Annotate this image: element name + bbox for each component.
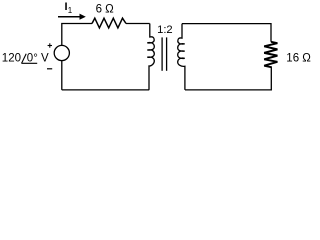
wire top-left: source to resistor: [62, 24, 92, 46]
resistor R2 16Ω zigzag: [264, 42, 277, 68]
voltage source V1 circle: [54, 45, 69, 60]
svg-text:16 Ω: 16 Ω: [286, 53, 311, 65]
inductor secondary winding L2: [178, 24, 185, 90]
svg-text:V: V: [41, 53, 49, 65]
wire bottom rail left loop: [62, 89, 149, 91]
wire secondary top to load: [182, 24, 271, 42]
plus sign: [48, 45, 52, 47]
svg-text:120: 120: [2, 53, 21, 65]
svg-text:1: 1: [68, 6, 73, 15]
svg-text:0°: 0°: [27, 53, 38, 65]
wire resistor to transformer primary: [126, 23, 150, 25]
minus sign: [47, 68, 52, 70]
wire load bottom to secondary: [185, 67, 271, 90]
svg-text:1:2: 1:2: [157, 24, 173, 36]
resistor R1 6Ω zigzag: [92, 18, 126, 28]
angle symbol: [22, 54, 27, 63]
transformer core line 1: [161, 37, 163, 70]
inductor primary winding L1: [147, 24, 154, 90]
current arrow I1: [58, 16, 80, 18]
transformer core line 2: [166, 37, 168, 70]
wire source bottom to bottom rail: [61, 61, 63, 90]
svg-text:6 Ω: 6 Ω: [96, 4, 115, 16]
